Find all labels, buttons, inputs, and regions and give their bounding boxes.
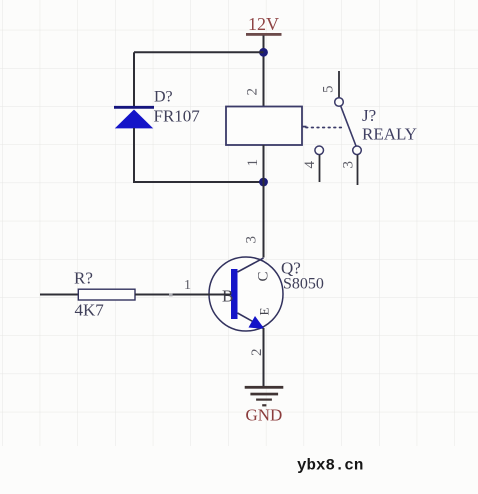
wire: emitter down to ground [263, 328, 265, 387]
svg-text:3: 3 [244, 236, 260, 244]
svg-text:12V: 12V [248, 14, 279, 34]
svg-text:ybx8.cn: ybx8.cn [297, 457, 363, 475]
wire: junction left to diode branch [134, 51, 264, 53]
dotted actuation line [306, 127, 344, 129]
svg-text:REALY: REALY [362, 125, 417, 144]
junction: top node [259, 48, 268, 57]
wire: coil bottom to collector [263, 145, 265, 258]
relay contact pin 3 [353, 146, 362, 185]
svg-text:4: 4 [302, 161, 318, 169]
power port 12V [246, 14, 282, 36]
wire: left lead of resistor [40, 294, 79, 296]
svg-text:1: 1 [245, 159, 261, 167]
relay contact pin 4 [315, 146, 324, 182]
svg-text:B: B [222, 287, 233, 306]
svg-text:J?: J? [362, 106, 376, 125]
wire: diode branch down to diode cathode [133, 52, 135, 106]
wire: diode branch bottom to junction [134, 181, 264, 183]
wire: resistor to base [135, 294, 231, 296]
svg-text:E: E [257, 308, 272, 316]
wire: 12V bar down to relay coil top [263, 36, 265, 108]
relay contact common pin 5 [335, 71, 344, 106]
transistor Q? S8050 [209, 257, 283, 331]
junction: coil bottom node [259, 178, 268, 187]
svg-text:3: 3 [341, 161, 357, 169]
switch arm [341, 106, 356, 146]
diode D? FR107 [114, 107, 154, 128]
relay coil J? [226, 107, 307, 146]
resistor R? [78, 289, 135, 300]
svg-text:R?: R? [74, 269, 93, 288]
svg-text:4K7: 4K7 [75, 301, 105, 320]
svg-text:1: 1 [184, 278, 191, 293]
node: net break tick on base wire [169, 294, 173, 297]
svg-text:C: C [256, 271, 272, 281]
svg-text:GND: GND [246, 406, 283, 425]
ground [245, 386, 284, 407]
svg-text:5: 5 [321, 86, 337, 94]
svg-text:FR107: FR107 [154, 107, 201, 126]
wire: diode anode down [133, 128, 135, 183]
svg-text:D?: D? [154, 89, 173, 106]
svg-text:2: 2 [245, 88, 261, 96]
svg-text:S8050: S8050 [283, 276, 324, 293]
